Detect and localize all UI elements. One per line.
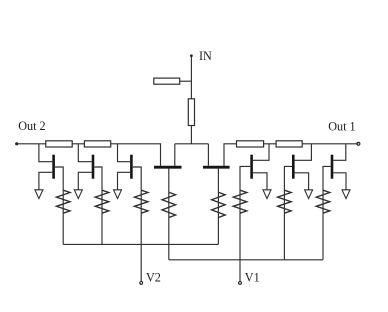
wire gate of Q8 [333, 144, 346, 161]
wire Q1 zigzag tail [62, 213, 64, 244]
wire Q2 zigzag tail [101, 213, 103, 244]
ground arrow of Q1 [35, 190, 43, 199]
resistor RZ3 (zigzag) [140, 190, 142, 213]
wire source of Q5 [217, 169, 219, 193]
ground arrow of Q8 [342, 190, 350, 199]
transistor Q2 [92, 155, 95, 179]
wire IN vertical lower [190, 126, 192, 144]
wire bus V2 (bottom-left) [63, 243, 218, 245]
resistor RZ8 (zigzag) [322, 190, 324, 213]
transistor Q6 [250, 155, 253, 179]
wire Q8 zigzag tail [322, 213, 324, 260]
svg-text:V1: V1 [245, 271, 260, 285]
node V1 terminal [239, 282, 242, 285]
wire drain of Q6 [240, 166, 250, 190]
wire source of Q3 [118, 172, 131, 190]
wire gate of Q2 [78, 144, 91, 162]
wire drain of Q3 [133, 167, 142, 190]
wire source of Q8 [333, 173, 346, 190]
wire source of Q2 [78, 172, 91, 190]
wire source of Q6 [253, 173, 267, 190]
wire source of Q7 [295, 173, 309, 190]
wire Q3 zigzag tail [140, 213, 142, 244]
wire gate of Q4 [174, 144, 176, 166]
node Out2 terminal [15, 142, 18, 145]
transistor Q5 (center-right) [203, 166, 230, 169]
resistor RZ1 (zigzag) [62, 190, 64, 213]
wire gate of Q6 [253, 144, 269, 161]
resistor RZ5 (zigzag) [217, 192, 219, 217]
ground arrow of Q3 [114, 190, 122, 199]
node IN terminal [190, 54, 193, 57]
wire drain of Q8 [323, 166, 331, 190]
transistor Q4 (center-left) [154, 166, 182, 169]
wire Q5 zigzag tail [217, 218, 219, 245]
wire gate of Q7 [295, 144, 312, 161]
wire IN vertical upper [190, 57, 192, 100]
wire gate of Q1 [39, 144, 52, 162]
wire V2 drop [140, 244, 142, 281]
svg-text:V2: V2 [146, 271, 161, 285]
resistor RZ2 (zigzag) [101, 190, 103, 213]
svg-text:Out 2: Out 2 [18, 119, 45, 133]
svg-text:IN: IN [199, 49, 212, 63]
wire bus V1 (bottom-right) [169, 259, 323, 261]
wire right output rail [224, 144, 358, 166]
wire gate of Q5 [207, 144, 209, 166]
wire drain of Q7 [284, 166, 292, 190]
resistor R3 [237, 141, 264, 147]
wire gate bridge [175, 143, 209, 145]
resistor R6 (series) [188, 99, 194, 126]
resistor R1 [46, 141, 72, 147]
wire Q4 zigzag tail [168, 218, 170, 260]
wire Q7 zigzag tail [283, 213, 285, 260]
transistor Q8 [331, 155, 334, 179]
ground arrow of Q6 [263, 190, 271, 199]
ground arrow of Q7 [305, 190, 313, 199]
resistor R5 (shunt stub) [154, 78, 180, 84]
resistor R4 [276, 141, 302, 147]
resistor RZ4 (zigzag) [168, 192, 170, 217]
wire source of Q4 [168, 169, 170, 193]
wire gate of Q3 [118, 144, 131, 162]
wire Q6 zigzag tail [239, 213, 241, 260]
resistor R2 [84, 141, 110, 147]
wire R5 to IN line [180, 80, 192, 82]
wire V1 drop [239, 260, 241, 282]
ground arrow of Q2 [74, 190, 82, 199]
wire left output rail [17, 144, 161, 166]
wire drain of Q1 [55, 167, 63, 190]
resistor RZ7 (zigzag) [283, 190, 285, 213]
resistor RZ6 (zigzag) [239, 190, 241, 213]
wire source of Q1 [39, 172, 52, 190]
svg-text:Out 1: Out 1 [328, 119, 355, 133]
node V2 terminal [140, 282, 143, 285]
transistor Q7 [292, 155, 295, 179]
node Out1 terminal [357, 142, 360, 145]
wire drain of Q2 [94, 167, 102, 190]
transistor Q1 [52, 155, 55, 179]
transistor Q3 [130, 155, 133, 179]
